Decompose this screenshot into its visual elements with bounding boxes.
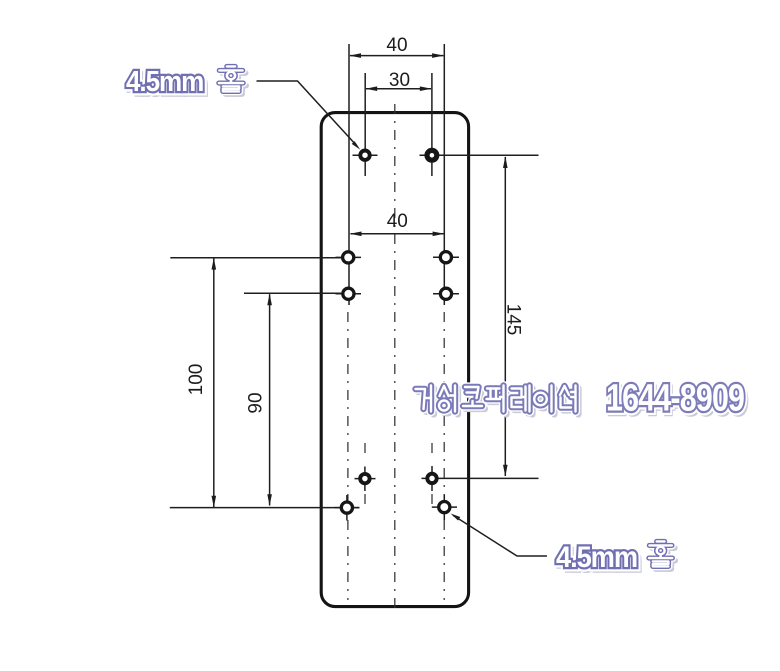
svg-text:40: 40: [386, 35, 407, 56]
svg-text:4.5mm: 4.5mm: [556, 541, 637, 574]
svg-text:30: 30: [389, 70, 410, 91]
svg-text:90: 90: [246, 392, 267, 413]
svg-text:4.5mm: 4.5mm: [126, 65, 203, 98]
svg-text:40: 40: [387, 211, 408, 232]
svg-text:145: 145: [503, 304, 524, 336]
svg-text:100: 100: [186, 364, 207, 396]
svg-text:1644-8909: 1644-8909: [606, 377, 744, 419]
